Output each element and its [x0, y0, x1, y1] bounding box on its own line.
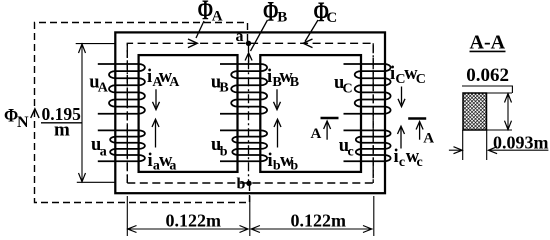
- svg-text:c: c: [399, 155, 405, 170]
- node a: [246, 41, 251, 46]
- svg-text:c: c: [348, 145, 354, 160]
- wire: dash-dot centerline right leg: [372, 43, 374, 183]
- svg-text:i: i: [390, 64, 395, 84]
- svg-text:B: B: [219, 81, 228, 96]
- svg-text:i: i: [394, 147, 399, 167]
- svg-text:b: b: [290, 159, 298, 174]
- svg-text:A: A: [311, 126, 322, 142]
- A-A hatched core cross-section: [463, 93, 487, 130]
- svg-text:i: i: [267, 67, 272, 87]
- dimension 0.195 m: extension lines: [76, 44, 116, 183]
- winding uc-icwc lower coil on right leg: [344, 130, 391, 161]
- wire: outer dashed flux path of phi_N: [35, 23, 250, 203]
- svg-text:a: a: [169, 159, 176, 174]
- svg-text:m: m: [54, 119, 70, 140]
- wire: flux dash line bottom yoke: [127, 182, 373, 184]
- svg-text:A: A: [423, 131, 434, 147]
- winding ua-iawa lower coil on left leg: [98, 130, 145, 161]
- dimension 0.122m (left span): extension lines: [127, 196, 373, 236]
- flux arrow up in center leg below node a: [245, 53, 252, 63]
- svg-text:i: i: [148, 151, 153, 171]
- svg-text:C: C: [326, 10, 337, 26]
- svg-text:b: b: [237, 176, 246, 193]
- svg-text:B: B: [290, 75, 299, 90]
- dimension 0.093m: arrows outside: [449, 149, 549, 151]
- dimension 0.122m (left span): line with arrows: [127, 228, 248, 230]
- wire: flux dash line left leg + top yoke + right leg: [127, 43, 373, 183]
- winding uB-iBwB upper coil on center leg: [220, 64, 267, 114]
- wire: flux dash-dot centerline of center leg: [248, 43, 250, 183]
- winding uC-iCwC upper coil on right leg: [344, 64, 391, 114]
- core outer outline: [115, 32, 385, 193]
- core window 2: [260, 55, 361, 172]
- winding ub-ibwb lower coil on center leg: [220, 130, 267, 161]
- core window 1: [139, 55, 238, 172]
- svg-text:A: A: [212, 9, 223, 25]
- svg-text:i: i: [268, 151, 273, 171]
- svg-text:i: i: [147, 67, 152, 87]
- svg-text:B: B: [277, 9, 287, 25]
- svg-text:0.122m: 0.122m: [166, 211, 222, 231]
- svg-text:0.062: 0.062: [466, 65, 509, 86]
- svg-text:a: a: [236, 28, 244, 45]
- dimension 0.122m (right span): line with arrows: [251, 228, 373, 230]
- svg-text:b: b: [220, 145, 228, 160]
- svg-text:A: A: [98, 81, 109, 96]
- svg-text:C: C: [416, 72, 426, 87]
- arrowhead phi_N direction (up) on left dashed path: [31, 109, 39, 118]
- node b: [246, 181, 251, 186]
- dimension 0.062: extension lines from square top/bottom: [487, 93, 513, 130]
- svg-text:A-A: A-A: [470, 32, 506, 54]
- dimension 0.195 m: line with arrows: [81, 44, 83, 182]
- svg-text:N: N: [17, 114, 29, 131]
- flux arrow right (phi_A) on top yoke: [188, 39, 197, 48]
- flux arrow left (phi_C) on top yoke: [303, 39, 312, 48]
- dimension 0.093m: extension lines below square: [463, 130, 487, 160]
- svg-text:A: A: [169, 75, 180, 90]
- section marker right: bar, arrow up, label A: [408, 117, 426, 120]
- svg-text:0.093m: 0.093m: [493, 133, 549, 153]
- svg-text:a: a: [100, 145, 107, 160]
- section marker left: bar, arrow up, label A: [321, 117, 339, 120]
- wire: dash-dot centerline left leg: [126, 43, 128, 183]
- dimension 0.062: vertical double arrow: [507, 93, 509, 130]
- svg-text:0.122m: 0.122m: [291, 211, 347, 231]
- svg-text:c: c: [417, 155, 423, 170]
- svg-text:C: C: [343, 81, 353, 96]
- winding uA-iAwA upper coil on left leg: [98, 64, 145, 114]
